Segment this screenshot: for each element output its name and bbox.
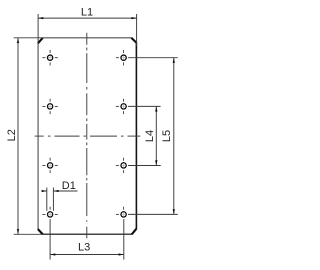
dimension L4 line — [155, 106, 157, 165]
dimension L2 line — [17, 38, 19, 235]
hole H4 (row2 right) circle — [121, 104, 126, 109]
dimension L4 arrow top — [155, 106, 157, 111]
hole H7 (row4 left) circle — [47, 212, 52, 217]
dimension L2 arrow bottom — [17, 229, 19, 234]
dimension L5 line — [173, 58, 175, 215]
hole H8 center mark — [116, 207, 126, 217]
dimension D1 extension line left — [46, 188, 48, 211]
hole H6 center mark — [116, 158, 126, 173]
vertical centerline — [86, 33, 88, 239]
dimension L3 arrow right — [119, 253, 124, 255]
dimension D1 extension line right — [52, 188, 54, 211]
plate bottom edge — [43, 233, 132, 235]
dimension L3 line — [50, 254, 124, 256]
hole H1 center mark — [42, 50, 57, 65]
dimension L5 extension line bottom — [128, 213, 178, 215]
dimension D1 line right tail — [53, 190, 77, 192]
dimension L1 arrow right — [131, 17, 136, 19]
dimension L1 extension line left — [37, 14, 39, 43]
dimension L5 arrow top — [173, 58, 175, 63]
hole H2 center mark — [116, 50, 126, 65]
svg-text:L2: L2 — [6, 129, 18, 141]
dimension L5 extension line top — [128, 57, 178, 59]
plate chamfer top-right — [131, 38, 136, 43]
hole H4 center mark — [116, 99, 126, 114]
hole H1 (row1 left) circle — [47, 55, 52, 60]
dimension L2 extension line top — [14, 37, 43, 39]
plate top edge — [42, 37, 131, 39]
hole H3 center mark — [42, 99, 57, 114]
svg-text:L3: L3 — [78, 241, 90, 253]
dimension L2 arrow top — [17, 38, 19, 43]
plate right edge — [135, 42, 137, 229]
dimension L3 extension line right — [123, 219, 125, 260]
plate chamfer top-left — [38, 38, 43, 43]
hole H5 (row3 left) circle — [47, 163, 52, 168]
dimension L4 extension line bottom — [128, 165, 161, 167]
hole H5 center mark — [42, 158, 57, 173]
svg-text:L1: L1 — [81, 6, 93, 18]
svg-text:L4: L4 — [144, 130, 156, 142]
svg-text:D1: D1 — [62, 180, 76, 192]
plate chamfer bottom-right — [132, 229, 137, 235]
dimension L1 arrow left — [38, 17, 43, 19]
dimension D1 line left tail — [42, 190, 47, 192]
dimension L1 line — [38, 17, 137, 19]
hole H8 (row4 right) circle — [121, 212, 126, 217]
hole H3 (row2 left) circle — [47, 104, 52, 109]
dimension L5 arrow bottom — [173, 209, 175, 214]
hole H7 center mark — [42, 207, 57, 217]
hole H2 (row1 right) circle — [121, 55, 126, 60]
dimension L4 arrow bottom — [155, 160, 157, 165]
hole H6 (row3 right) circle — [121, 163, 126, 168]
dimension L2 extension line bottom — [14, 233, 43, 235]
dimension L4 extension line top — [128, 105, 161, 107]
dimension D1 arrow right — [53, 190, 58, 192]
plate chamfer bottom-left — [38, 229, 43, 234]
dimension L1 extension line right — [136, 14, 138, 46]
dimension D1 arrow left — [42, 190, 47, 192]
plate left edge — [37, 43, 39, 230]
dimension L3 extension line left — [49, 219, 51, 260]
horizontal centerline — [35, 135, 141, 137]
dimension L3 arrow left — [50, 253, 55, 255]
svg-text:L5: L5 — [161, 130, 173, 142]
